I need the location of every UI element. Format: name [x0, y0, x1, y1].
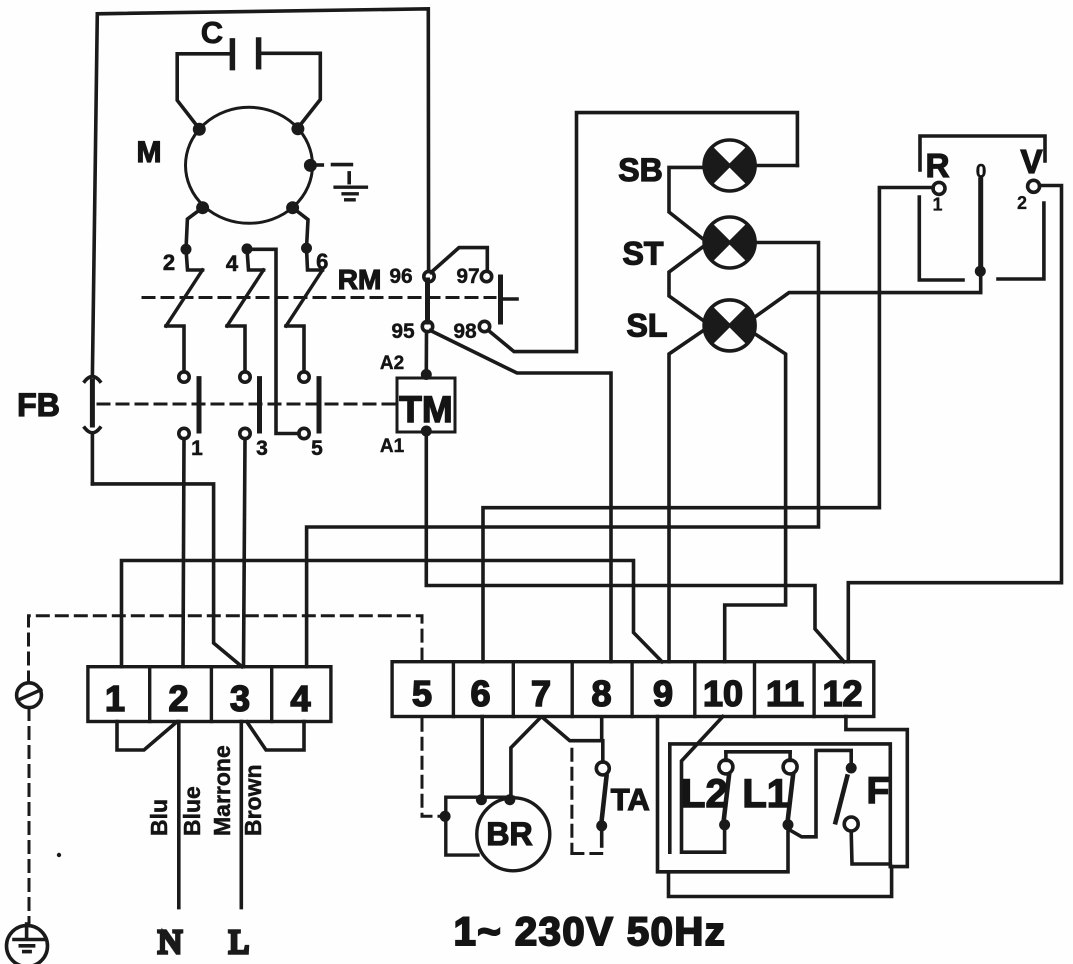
svg-text:2: 2 — [168, 678, 188, 719]
wire terminal 7 to blower BR — [511, 718, 540, 797]
svg-text:1: 1 — [105, 678, 125, 719]
svg-text:A2: A2 — [380, 353, 404, 374]
wire terminal 1 to terminal 9 — [122, 561, 663, 667]
node BR feed dot 2 — [504, 794, 515, 805]
svg-text:Blu: Blu — [146, 799, 172, 836]
RM linkage dashed line — [143, 296, 495, 299]
svg-text:2: 2 — [1017, 193, 1027, 213]
svg-text:FB: FB — [17, 387, 60, 423]
wire L1 to F top — [788, 750, 851, 836]
svg-text:5: 5 — [311, 437, 323, 460]
wire FB to terminal 3 — [92, 484, 242, 667]
wire N from terminal 2 — [177, 722, 181, 908]
node selector 0 dot — [975, 266, 986, 277]
wire lamp chain SB-ST-SL to terminal 9 — [669, 167, 704, 240]
wire 98 diagonal to lamps top — [489, 113, 798, 352]
wire capacitor left to motor top-left node — [177, 54, 232, 129]
svg-text:7: 7 — [531, 673, 551, 714]
selector fixed L under V — [998, 203, 1044, 279]
node BR feed dot 1 — [476, 794, 487, 805]
svg-text:RM: RM — [338, 264, 382, 295]
signal lamp SB — [704, 140, 755, 191]
switch L1 — [783, 752, 798, 831]
svg-text:ST: ST — [623, 236, 664, 272]
node dot 6 — [301, 243, 312, 254]
thermostat TA contact — [596, 741, 609, 846]
svg-text:8: 8 — [591, 673, 611, 714]
svg-text:F: F — [867, 770, 890, 811]
wire terminal 9 to L1 — [658, 717, 789, 872]
wire terminal 12 outer loop — [846, 717, 907, 867]
capacitor C plates — [232, 40, 258, 68]
RM aux bar tick — [503, 297, 517, 301]
node BR earth dot — [440, 811, 451, 822]
svg-text:TA: TA — [611, 782, 650, 817]
contact circle 3 — [240, 428, 250, 438]
RM aux 96-95 bridge bar — [425, 280, 430, 322]
wire motor bottom-right node to dot 6 — [293, 208, 308, 248]
svg-text:L2: L2 — [681, 772, 728, 816]
wire terminal 10 to L2 — [682, 717, 725, 853]
svg-text:10: 10 — [703, 673, 743, 714]
svg-text:1~ 230V 50Hz: 1~ 230V 50Hz — [454, 910, 727, 954]
wire SB right to top feed — [755, 164, 797, 168]
svg-text:L1: L1 — [742, 772, 789, 816]
svg-text:9: 9 — [653, 673, 673, 714]
svg-text:N: N — [158, 924, 183, 961]
selector 0 bar — [978, 180, 983, 267]
svg-text:5: 5 — [412, 673, 432, 714]
switch F — [836, 763, 859, 832]
svg-text:95: 95 — [391, 320, 415, 343]
wire L from terminal 3 — [240, 722, 244, 908]
wire contact 1 to terminal 2 — [183, 439, 184, 667]
node dot 2 — [181, 244, 192, 255]
contact circle 1 — [179, 428, 189, 438]
RM aux contact 97 circle — [481, 271, 491, 281]
svg-text:L: L — [229, 924, 250, 961]
wire bottom U of switch assembly — [669, 867, 892, 897]
wire TM A1 to terminal 12 — [426, 433, 844, 662]
node motor top-left — [193, 123, 206, 136]
node A2 dot — [421, 369, 432, 380]
svg-text:97: 97 — [456, 265, 479, 288]
svg-text:BR: BR — [486, 816, 532, 852]
wire F bottom to inner box — [851, 832, 890, 865]
svg-text:1: 1 — [932, 195, 942, 215]
wire capacitor right to motor top-right node — [259, 53, 321, 128]
node motor bottom-left — [196, 201, 209, 214]
timer TM box — [397, 378, 455, 432]
lamp switch inner box — [670, 744, 891, 864]
svg-text:1: 1 — [191, 437, 203, 460]
svg-text:0: 0 — [976, 162, 987, 183]
node A1 dot — [421, 426, 432, 437]
earth symbol bottom — [7, 924, 48, 964]
signal lamp SL — [704, 300, 755, 351]
selector R contact circle — [933, 182, 945, 194]
node motor top-right — [291, 122, 304, 135]
FB contact bar pole 3 — [257, 379, 262, 431]
wire contact 3 to terminal 3 — [244, 439, 246, 667]
svg-text:12: 12 — [822, 673, 862, 714]
wire dot 4 to contact 5 — [247, 249, 299, 433]
RM main contact pole 6 — [286, 248, 323, 382]
jumper terminal 7 to terminal 8 via TA — [543, 718, 602, 741]
signal lamp ST — [704, 217, 755, 268]
svg-text:11: 11 — [766, 673, 804, 714]
FB contact bar pole 5 — [317, 379, 322, 431]
contact circle 5 — [299, 428, 309, 438]
svg-text:SB: SB — [618, 152, 662, 188]
terminal block 5-12 — [392, 662, 874, 717]
FB contact bar pole 1 — [197, 379, 202, 431]
node motor bottom-right — [286, 201, 299, 214]
RM aux contact 98 circle — [479, 321, 489, 331]
svg-text:R: R — [926, 147, 950, 184]
svg-text:3: 3 — [230, 678, 250, 719]
svg-text:98: 98 — [453, 320, 477, 343]
wire motor bottom-left node to dot 2 — [186, 208, 203, 250]
RM aux contact 95 circle — [422, 321, 432, 331]
selector V contact circle — [1028, 180, 1040, 192]
svg-text:3: 3 — [256, 437, 268, 460]
RM aux contact 96 circle — [424, 271, 434, 281]
svg-text:2: 2 — [163, 250, 175, 275]
svg-text:A1: A1 — [380, 436, 405, 457]
jumper terminal 1 to 2 — [117, 722, 177, 751]
svg-text:4: 4 — [290, 678, 310, 719]
wire 95 diagonal to terminal 8 — [431, 331, 612, 662]
svg-text:Blue: Blue — [179, 786, 205, 836]
motor M circle — [186, 107, 313, 223]
switch L2 — [719, 752, 733, 831]
overload FB symbol — [85, 376, 100, 484]
svg-text:6: 6 — [470, 673, 490, 714]
svg-text:TM: TM — [399, 389, 452, 430]
svg-text:M: M — [137, 136, 162, 169]
wire top border from FB loop to RM 96 — [92, 9, 428, 376]
earth dashed line from screw to terminal 5 — [29, 616, 444, 924]
selector fixed L under R — [919, 197, 963, 280]
blower BR outline — [446, 797, 550, 871]
svg-text:4: 4 — [226, 251, 239, 276]
earth screw symbol — [17, 683, 42, 708]
selector switch bracket — [920, 136, 1045, 170]
wire 95 to TM A2 — [424, 332, 428, 373]
speck artifact — [57, 853, 61, 857]
node motor right (earth) — [304, 159, 317, 172]
wire ST right to terminal 4 — [307, 243, 819, 667]
wire dashed motor frame to ground — [316, 165, 351, 183]
svg-text:V: V — [1020, 143, 1042, 180]
terminal block 1-4 — [88, 667, 331, 722]
RM aux blade 96 to 97 — [431, 248, 487, 273]
thermostat TA dashed box — [572, 749, 602, 853]
FB linkage dashed line — [98, 403, 396, 406]
wire R contact to terminal 6 — [483, 188, 933, 662]
RM main contact pole 4 — [227, 249, 264, 382]
wire SL right down to terminal 10 — [725, 333, 786, 662]
node dot 4 — [242, 243, 253, 254]
svg-text:C: C — [201, 15, 223, 50]
ground symbol motor frame — [335, 187, 366, 200]
RM aux 97-98 fixed bar — [498, 277, 503, 322]
svg-text:SL: SL — [627, 308, 668, 344]
bridge L2 to L1 — [726, 750, 790, 754]
wire SL right up to selector 0 — [753, 274, 981, 319]
jumper terminal 3 to 4 — [247, 722, 304, 751]
wire V contact to terminal 12 — [848, 186, 1061, 662]
RM main contact pole 2 — [166, 249, 203, 382]
svg-text:Brown: Brown — [240, 764, 266, 836]
wire terminal 6 to blower BR — [480, 717, 484, 798]
svg-text:Marrone: Marrone — [209, 745, 235, 836]
svg-text:96: 96 — [389, 265, 412, 288]
